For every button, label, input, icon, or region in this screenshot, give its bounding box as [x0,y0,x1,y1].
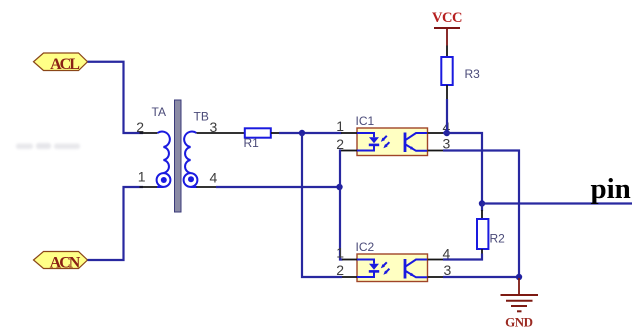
wire junction down to IC2 pin2 [302,133,342,277]
transformer winding TA [157,132,171,187]
IC2 pin 3 stub [428,276,444,278]
svg-text:pin: pin [591,173,631,205]
IC2 LED light arrows [381,262,390,274]
svg-text:TA: TA [152,105,166,119]
resistor R3 and VCC rail [432,10,462,46]
wire IC2 pin3 to GND column [443,276,519,278]
svg-text:1: 1 [138,169,146,185]
svg-text:4: 4 [210,170,218,186]
IC2 internal LED [357,260,379,278]
R2 bottom lead [481,249,483,255]
IC2 pin 4 stub [428,259,444,261]
IC1 pin 2 stub [341,150,357,152]
svg-text:2: 2 [336,136,344,152]
resistor R2 [477,219,488,249]
svg-text:1: 1 [336,118,344,134]
opto-coupler IC1 body [357,128,428,156]
opto-coupler IC2 body [357,254,428,282]
wire IC1 pin4 to output column [443,133,482,204]
svg-text:3: 3 [444,262,452,278]
wire IC1 pin3 down to IC2 pin3 [443,151,519,278]
connector ACL [34,53,88,73]
svg-text:3: 3 [210,119,218,135]
svg-text:2: 2 [336,262,344,278]
wire ACL to transformer pin2 [88,62,144,133]
junction node IC1 pin4 [444,130,450,136]
svg-text:GND: GND [505,315,533,330]
svg-text:R3: R3 [465,67,481,81]
IC1 pin 1 stub [341,132,357,134]
svg-text:ACN: ACN [50,255,81,272]
transformer winding TB [184,132,198,187]
transformer pin 4 stub [197,186,217,188]
junction node at R1/IC1/IC2 net [299,130,305,136]
wire R1 to IC1 pin1 [279,132,342,134]
wire output to pin [482,202,632,204]
R3 bottom lead [446,85,448,100]
IC1 LED light arrows [381,136,390,148]
transformer pin 3 stub and lead to R1 [197,132,245,134]
transformer T core [175,100,182,212]
svg-text:4: 4 [443,246,451,262]
svg-text:ACL: ACL [50,56,79,73]
watermark smudge [16,143,80,149]
IC2 pin 2 stub [342,276,357,278]
IC1 pin 4 stub [428,132,444,134]
junction node GND [516,274,522,280]
R2 top lead [481,204,483,212]
R3 top lead [446,46,448,58]
IC1 phototransistor [405,133,427,153]
svg-text:IC2: IC2 [356,240,375,254]
transformer pin 1 stub [140,186,158,188]
svg-text:2: 2 [136,119,144,135]
svg-text:R1: R1 [244,136,260,150]
wire transformer pin4 to junction [216,186,340,188]
R1 right lead [271,132,280,134]
IC2 phototransistor [405,259,427,279]
svg-text:R2: R2 [490,232,506,246]
IC2 pin 1 stub [342,259,357,261]
junction node pin4 net [336,184,342,190]
IC1 internal LED [357,133,379,151]
svg-text:TB: TB [194,110,209,124]
svg-text:VCC: VCC [432,10,462,26]
resistor R1 [245,128,271,137]
connector ACN [34,252,88,272]
wire R2 to IC2 pin4 [443,254,482,260]
wire IC1 pin2 down to IC2 pin1 [340,151,343,260]
wire ACN to transformer pin1 [88,187,144,260]
IC1 pin 3 stub [428,150,444,152]
TA polarity dot [161,177,167,183]
svg-text:3: 3 [443,136,451,152]
junction node output [479,200,485,206]
ground symbol GND [501,278,539,330]
resistor R3 [441,57,452,85]
wire R3 to IC1 pin4 [446,99,448,133]
svg-text:IC1: IC1 [356,114,375,128]
svg-text:1: 1 [336,245,344,261]
transformer pin 2 stub [140,132,158,134]
TB polarity dot [188,176,194,182]
